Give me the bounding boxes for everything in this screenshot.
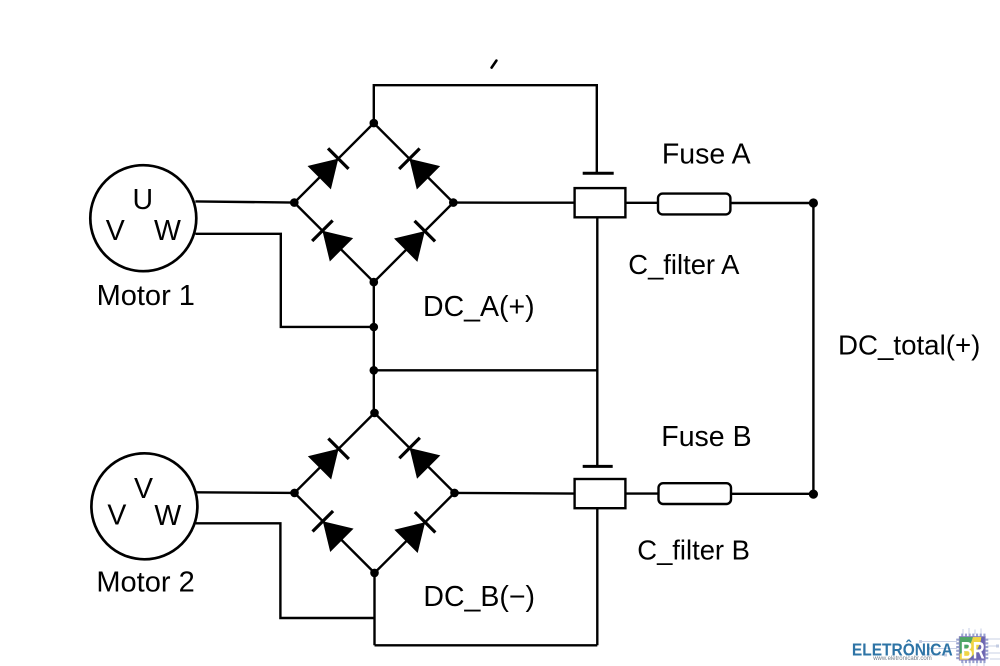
svg-text:DC_B(−): DC_B(−) xyxy=(423,581,535,613)
wire C_filter B box to Fuse B xyxy=(625,492,658,494)
node bridge B top xyxy=(370,409,379,418)
svg-text:Fuse B: Fuse B xyxy=(661,421,751,453)
wire C_filter B box bottom to DC_B rail xyxy=(596,508,598,645)
watermark logo EletronicaBR xyxy=(852,628,1000,666)
node DC_total lower xyxy=(809,490,818,499)
wire Fuse A to DC_total node xyxy=(730,202,813,204)
wire M1 W to bridge A bottom net xyxy=(195,234,373,327)
wire M2 V to bridge B left node xyxy=(196,491,295,494)
diode D6 (bridge B upper-right) xyxy=(398,436,440,478)
wire bridge A right to C_filter A box xyxy=(453,201,574,203)
watermark circuit traces decoration xyxy=(922,628,1000,666)
node DC_total upper xyxy=(809,198,818,207)
watermark chip body xyxy=(959,637,985,661)
node bridge A left xyxy=(290,198,299,207)
wire C_filter A box bottom to C_filter B plate xyxy=(596,217,598,465)
diode D4 (bridge A lower-right) xyxy=(394,219,436,261)
motor M2 xyxy=(91,453,197,559)
diode D2 (bridge A upper-right) xyxy=(398,147,440,189)
fuse Fuse A body xyxy=(658,194,730,215)
wire DC_B bottom rail xyxy=(375,644,598,646)
wire M1 U to bridge A left node xyxy=(195,201,294,202)
node bridge A bottom xyxy=(370,278,379,287)
watermark trace pads xyxy=(919,640,999,657)
svg-text:W: W xyxy=(154,500,181,532)
fuse Fuse B body xyxy=(659,483,732,504)
wire bridge B bottom down xyxy=(373,573,375,645)
svg-text:V: V xyxy=(106,215,125,247)
svg-text:U: U xyxy=(133,184,154,216)
node bridge B bottom xyxy=(370,569,379,578)
wire Fuse B to DC_total node xyxy=(731,493,813,495)
capacitor C_filter A body box xyxy=(575,188,626,217)
svg-text:BR: BR xyxy=(961,637,985,664)
diode D5 (bridge B upper-left) xyxy=(308,437,350,479)
capacitor C_filter B body box xyxy=(575,479,626,508)
svg-text:DC_A(+): DC_A(+) xyxy=(423,291,535,323)
wire M2 W to bridge B bottom net xyxy=(196,523,375,618)
svg-text:DC_total(+): DC_total(+) xyxy=(838,329,980,360)
junction DC_A mid rail xyxy=(370,366,379,375)
diode D8 (bridge B lower-right) xyxy=(394,511,436,553)
motor M1 xyxy=(90,165,196,271)
stray tick mark xyxy=(492,61,497,68)
diode D3 (bridge A lower-left) xyxy=(311,219,353,261)
node bridge A top xyxy=(370,119,379,128)
capacitor C_filter A top plate xyxy=(583,172,614,175)
wire bridge B right to C_filter B box xyxy=(455,492,575,495)
svg-text:V: V xyxy=(134,473,153,505)
svg-text:www.eletronicabr.com: www.eletronicabr.com xyxy=(872,655,932,662)
diode D1 (bridge A upper-left) xyxy=(308,147,350,189)
bridge B diamond xyxy=(295,413,455,573)
wire DC_A mid rail xyxy=(374,369,598,371)
svg-text:Fuse A: Fuse A xyxy=(662,139,751,171)
diode D7 (bridge B lower-left) xyxy=(311,510,353,552)
node bridge B right xyxy=(450,489,459,498)
wire bridge A top to C_filter A plate xyxy=(374,85,597,172)
svg-text:C_filter B: C_filter B xyxy=(637,534,750,565)
node bridge A right xyxy=(449,198,458,207)
wire DC_total right bus xyxy=(812,203,814,494)
svg-text:Motor 2: Motor 2 xyxy=(96,566,194,598)
node bridge B left xyxy=(290,489,299,498)
wire bridge A bottom to bridge B top xyxy=(373,282,375,413)
junction M1 W with bridge A bottom net xyxy=(370,323,379,332)
watermark chip pins xyxy=(956,634,988,664)
svg-text:C_filter A: C_filter A xyxy=(628,249,740,280)
bridge A diamond xyxy=(294,123,453,282)
svg-text:Motor 1: Motor 1 xyxy=(97,280,195,312)
capacitor C_filter B top plate xyxy=(583,465,613,468)
svg-text:V: V xyxy=(107,499,126,531)
svg-text:W: W xyxy=(154,215,181,247)
wire C_filter A box to Fuse A xyxy=(625,202,658,204)
